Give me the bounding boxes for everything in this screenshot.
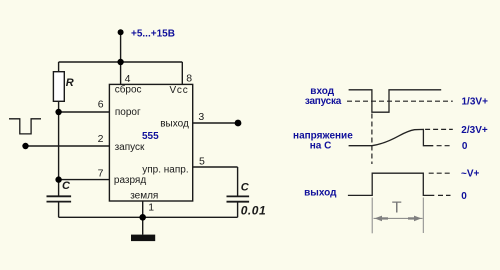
svg-text:сброс: сброс — [115, 84, 142, 96]
svg-text:упр. напр.: упр. напр. — [142, 164, 188, 175]
svg-text:разряд: разряд — [114, 175, 146, 186]
svg-text:0: 0 — [461, 191, 467, 202]
svg-text:на С: на С — [310, 141, 332, 152]
svg-text:запуска: запуска — [305, 96, 342, 107]
svg-text:запуск: запуск — [115, 142, 145, 153]
svg-text:2/3V+: 2/3V+ — [461, 125, 488, 136]
svg-text:1/3V+: 1/3V+ — [462, 96, 489, 107]
svg-text:порог: порог — [115, 107, 141, 118]
svg-text:T: T — [392, 200, 402, 217]
svg-text:3: 3 — [198, 111, 204, 123]
svg-text:0: 0 — [462, 141, 468, 152]
svg-text:выход: выход — [304, 188, 337, 199]
svg-text:R: R — [66, 77, 74, 89]
svg-text:6: 6 — [98, 98, 104, 110]
svg-text:выход: выход — [160, 119, 189, 130]
svg-text:555: 555 — [142, 131, 159, 142]
svg-text:0.01: 0.01 — [241, 204, 266, 218]
svg-text:2: 2 — [98, 133, 104, 145]
svg-text:~V+: ~V+ — [461, 169, 480, 180]
svg-text:C: C — [62, 180, 71, 192]
svg-text:8: 8 — [186, 73, 192, 85]
svg-text:4: 4 — [125, 73, 131, 85]
svg-text:C: C — [241, 181, 250, 193]
svg-text:земля: земля — [130, 191, 158, 202]
svg-text:+5...+15В: +5...+15В — [131, 29, 175, 40]
svg-text:1: 1 — [148, 202, 154, 214]
svg-text:5: 5 — [199, 156, 205, 168]
svg-text:Vcc: Vcc — [170, 85, 188, 96]
svg-text:7: 7 — [98, 168, 104, 180]
